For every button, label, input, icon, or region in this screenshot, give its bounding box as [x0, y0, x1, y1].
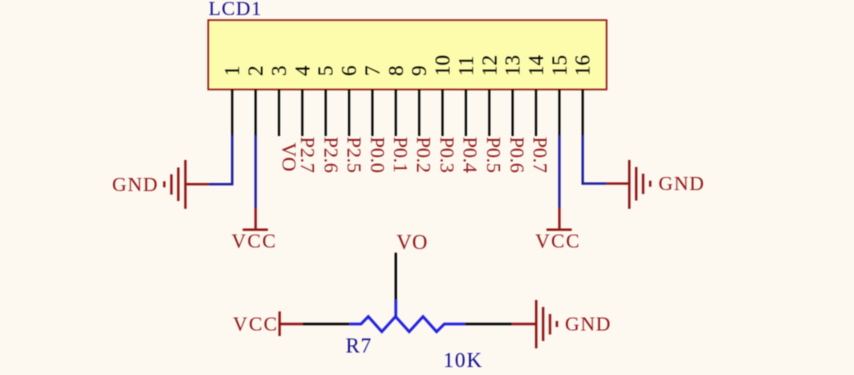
- potentiometer R7: [349, 300, 465, 332]
- svg-text:5: 5: [314, 66, 338, 77]
- svg-text:P0.0: P0.0: [366, 137, 388, 173]
- svg-text:P0.4: P0.4: [459, 137, 481, 173]
- pin 11 stub: [465, 90, 467, 137]
- svg-text:9: 9: [407, 66, 431, 77]
- wire VO to wiper: [395, 253, 397, 300]
- svg-text:GND: GND: [659, 173, 705, 195]
- wire pin2 to VCC: [254, 135, 256, 208]
- pin 3 stub: [278, 90, 280, 137]
- wire R7 to bottom ground: [465, 323, 512, 325]
- pin 16 stub: [582, 90, 584, 137]
- svg-text:4: 4: [290, 65, 314, 76]
- svg-text:R7: R7: [346, 333, 373, 357]
- svg-text:VCC: VCC: [233, 314, 279, 336]
- svg-text:P2.6: P2.6: [319, 137, 341, 173]
- pin 4 stub: [301, 90, 303, 137]
- VCC symbol bottom: [280, 311, 303, 336]
- pin 5 stub: [325, 90, 327, 137]
- pin 6 stub: [348, 90, 350, 137]
- svg-text:12: 12: [477, 55, 501, 76]
- svg-text:LCD1: LCD1: [209, 0, 263, 20]
- svg-text:13: 13: [501, 55, 525, 76]
- svg-text:11: 11: [454, 56, 478, 76]
- svg-text:14: 14: [524, 55, 548, 77]
- svg-text:VCC: VCC: [535, 231, 581, 253]
- svg-text:P0.7: P0.7: [529, 137, 551, 173]
- svg-text:P2.5: P2.5: [343, 137, 365, 173]
- svg-text:P0.2: P0.2: [412, 137, 434, 173]
- svg-text:10: 10: [431, 55, 455, 76]
- pin 1 stub: [231, 90, 233, 137]
- wire VCC to R7: [303, 323, 349, 325]
- VCC symbol pin15: [547, 208, 572, 230]
- wire pin1 to left ground: [209, 135, 233, 184]
- svg-text:3: 3: [267, 66, 291, 77]
- svg-text:GND: GND: [112, 174, 158, 196]
- wire pin16 to right ground: [583, 135, 607, 184]
- pin 2 stub: [255, 90, 257, 137]
- svg-text:VO: VO: [397, 230, 428, 254]
- wire pin15 to VCC: [558, 135, 560, 208]
- svg-text:15: 15: [547, 55, 571, 76]
- LCD1 body: [208, 20, 606, 89]
- pin 10 stub: [441, 90, 443, 137]
- svg-text:8: 8: [384, 66, 408, 77]
- VCC symbol pin2: [243, 208, 268, 230]
- pin 9 stub: [418, 90, 420, 137]
- ground symbol bottom: [512, 300, 557, 348]
- svg-text:P0.1: P0.1: [389, 137, 411, 173]
- ground symbol right: [606, 160, 650, 209]
- svg-text:16: 16: [571, 55, 595, 76]
- svg-text:P0.6: P0.6: [505, 137, 527, 173]
- pin 8 stub: [395, 90, 397, 137]
- pin 13 stub: [511, 90, 513, 137]
- svg-text:GND: GND: [565, 314, 611, 336]
- pin 14 stub: [535, 90, 537, 137]
- svg-text:VCC: VCC: [231, 231, 277, 253]
- svg-text:6: 6: [337, 66, 361, 77]
- ground symbol left: [164, 160, 208, 209]
- svg-text:P0.3: P0.3: [435, 137, 457, 173]
- pin 7 stub: [371, 90, 373, 137]
- pin 15 stub: [558, 90, 560, 137]
- svg-text:1: 1: [220, 66, 244, 77]
- svg-text:2: 2: [244, 66, 268, 77]
- svg-text:P2.7: P2.7: [296, 137, 318, 173]
- pin 12 stub: [488, 90, 490, 137]
- svg-text:10K: 10K: [443, 348, 483, 372]
- svg-text:P0.5: P0.5: [482, 137, 504, 173]
- svg-text:7: 7: [360, 66, 384, 77]
